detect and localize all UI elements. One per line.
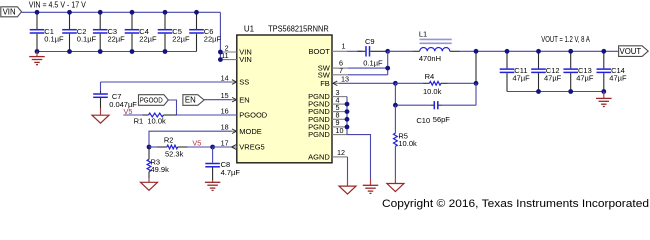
svg-text:VIN: VIN — [239, 55, 252, 64]
svg-text:0.1µF: 0.1µF — [44, 34, 64, 43]
capacitor C13 — [563, 51, 578, 91]
capacitor C2 — [62, 12, 77, 51]
svg-text:15: 15 — [221, 91, 229, 100]
junction PGND — [345, 117, 350, 122]
ground under C7 — [100, 108, 102, 115]
svg-text:0.1µF: 0.1µF — [77, 34, 97, 43]
svg-text:PGOOD: PGOOD — [140, 96, 163, 105]
wire input GND rail — [37, 51, 197, 53]
svg-text:11: 11 — [221, 51, 228, 60]
capacitor C14 — [597, 51, 612, 91]
svg-text:22µF: 22µF — [172, 34, 190, 43]
junction C5 top — [163, 10, 168, 15]
svg-text:R1: R1 — [134, 116, 144, 125]
wire PGND chain — [346, 97, 348, 135]
ground bars C8 — [205, 182, 221, 190]
wire SW pin 6 — [348, 67, 388, 69]
wire VIN top rail — [22, 11, 221, 13]
svg-text:MODE: MODE — [239, 127, 261, 136]
wire R4 to right vertical — [448, 82, 477, 84]
resistor R4 — [429, 81, 441, 85]
junction C3 bottom — [98, 49, 103, 54]
inductor L1 — [412, 39, 460, 51]
wire AGND to ground — [347, 157, 349, 179]
junction C4 bottom — [130, 49, 135, 54]
pin BOOT 1 — [332, 50, 347, 52]
capacitor C1 — [30, 12, 45, 51]
wire output rail — [460, 50, 618, 52]
op-amp U1 TPS568215RNNR body — [237, 35, 332, 163]
wire BOOT to C9 — [347, 50, 362, 52]
svg-text:47µF: 47µF — [609, 73, 627, 82]
svg-text:V5: V5 — [192, 138, 201, 147]
pin PGND 10 — [332, 134, 347, 136]
junction R4 right — [474, 81, 479, 86]
ground input rail — [36, 52, 38, 57]
pin MODE 18 — [232, 130, 237, 132]
pin PGOOD 16 — [219, 114, 237, 116]
svg-text:12: 12 — [337, 148, 345, 157]
resistor R3 — [147, 159, 151, 171]
pin SW 6 — [332, 67, 348, 69]
ground under C8 — [212, 180, 214, 182]
pin FB 13 — [332, 82, 339, 84]
wire to pin 16 — [177, 114, 220, 116]
svg-text:L1: L1 — [419, 29, 427, 38]
wire down to C10 — [475, 83, 477, 105]
capacitor C6 — [189, 12, 204, 51]
svg-text:47µF: 47µF — [513, 73, 531, 82]
terminal VOUT — [619, 46, 649, 57]
capacitor C12 — [531, 51, 546, 91]
junction C2 bottom — [67, 49, 72, 54]
junction C3 top — [98, 10, 103, 15]
svg-text:10: 10 — [336, 126, 344, 135]
svg-text:22µF: 22µF — [204, 34, 222, 43]
wire FB net — [339, 82, 395, 84]
resistor R5 leads — [394, 105, 396, 133]
junction C13 top — [568, 49, 573, 54]
junction PGND — [345, 125, 350, 130]
terminal EN — [183, 95, 204, 106]
wire C10 run — [442, 104, 477, 106]
wire V5 to R1 — [123, 114, 142, 116]
junction C1 top — [35, 10, 40, 15]
svg-text:1: 1 — [342, 42, 346, 51]
svg-text:4.7µF: 4.7µF — [221, 168, 241, 177]
pin PGND 9 — [332, 126, 347, 128]
svg-text:R4: R4 — [425, 72, 435, 81]
junction PGND — [345, 109, 350, 114]
junction C2 top — [67, 10, 72, 15]
svg-text:FB: FB — [320, 79, 330, 88]
svg-text:R2: R2 — [164, 136, 174, 145]
pin PGND 8 — [332, 118, 347, 120]
wire output gnd rail — [507, 91, 604, 93]
wire SW vertical — [387, 51, 389, 75]
junction PGND — [345, 102, 350, 107]
svg-text:Copyright © 2016, Texas Instru: Copyright © 2016, Texas Instruments Inco… — [382, 198, 649, 210]
pin SW 7 — [332, 74, 348, 76]
pin PGND 4 — [332, 103, 347, 105]
wire MODE net — [149, 131, 232, 147]
svg-text:18: 18 — [221, 123, 229, 132]
svg-text:22µF: 22µF — [108, 34, 126, 43]
wire R1 to junction — [164, 114, 177, 116]
ground under C14 — [603, 92, 605, 99]
wire V5 net — [188, 146, 213, 148]
capacitor C8 wire — [212, 147, 214, 163]
resistor R2 — [167, 145, 178, 149]
wire R2 right lead — [178, 146, 188, 148]
svg-text:16: 16 — [221, 106, 229, 115]
junction C9/SW/L1 — [385, 49, 390, 54]
svg-text:14: 14 — [221, 73, 229, 82]
junction C12 top — [536, 49, 541, 54]
wire to pin 17 — [213, 146, 232, 148]
resistor R3 leads — [148, 147, 150, 159]
ground triangle AGND — [339, 186, 356, 194]
capacitor C10 — [430, 101, 441, 109]
junction MODE/R2/R3 — [147, 145, 152, 150]
svg-text:17: 17 — [221, 138, 229, 147]
svg-text:56pF: 56pF — [433, 115, 451, 124]
pin VIN 2 — [220, 51, 236, 53]
wire PGOOD tag to net — [168, 100, 176, 115]
capacitor C11 — [500, 51, 515, 91]
wire SW pin 7 — [348, 74, 388, 76]
svg-text:22µF: 22µF — [139, 34, 157, 43]
junction C5 bottom — [163, 49, 168, 54]
wire EN tag to pin 15 — [204, 99, 231, 101]
ground bars output — [596, 98, 612, 106]
svg-text:VOUT: VOUT — [620, 47, 642, 56]
junction rail/R4 vertical — [474, 49, 479, 54]
svg-text:470nH: 470nH — [419, 54, 441, 63]
svg-text:47µF: 47µF — [544, 73, 562, 82]
wire output rail to R4/C10 vertical — [475, 51, 477, 83]
pin AGND 12 — [332, 156, 348, 158]
pin VREG5 17 — [232, 146, 237, 148]
ground triangle C7 — [92, 115, 109, 123]
ground triangle R5 — [387, 184, 404, 192]
svg-text:TPS568215RNNR: TPS568215RNNR — [268, 25, 329, 34]
capacitor C4 — [125, 12, 140, 51]
pin VIN 11 — [220, 59, 236, 61]
svg-text:10.0k: 10.0k — [423, 87, 442, 96]
junction C10 left/R5 — [393, 103, 398, 108]
junction SW6 — [385, 66, 390, 71]
svg-text:U1: U1 — [244, 25, 255, 34]
capacitor C9 — [358, 46, 388, 56]
svg-text:52.3k: 52.3k — [165, 149, 184, 158]
capacitor C7 — [93, 91, 108, 108]
capacitor C5 — [158, 12, 173, 51]
svg-text:0.1µF: 0.1µF — [363, 59, 383, 68]
pin EN 15 — [232, 99, 237, 101]
resistor R5 — [394, 133, 398, 146]
svg-text:VREG5: VREG5 — [239, 143, 264, 152]
ground triangle R3 — [141, 182, 158, 190]
junction C14 top — [601, 49, 606, 54]
svg-text:C10: C10 — [416, 116, 430, 125]
pin SS 14 — [232, 81, 237, 83]
junction C4 top — [130, 10, 135, 15]
terminal VIN — [1, 7, 22, 17]
svg-text:C9: C9 — [365, 37, 375, 46]
svg-text:13: 13 — [341, 74, 349, 83]
junction FB — [393, 81, 398, 86]
capacitor C3 — [93, 12, 108, 51]
wire PGND to ground — [347, 135, 371, 179]
junction C8/VREG5 — [210, 145, 215, 150]
wire R2 left lead — [149, 146, 157, 148]
svg-text:VIN = 4.5 V - 17 V: VIN = 4.5 V - 17 V — [29, 0, 87, 9]
svg-text:49.9k: 49.9k — [151, 165, 170, 174]
ground under R5 — [394, 178, 396, 183]
ground bars under C1 — [29, 57, 45, 65]
svg-text:VIN: VIN — [3, 8, 16, 17]
wire SS net — [101, 81, 232, 83]
wire FB vertical — [394, 83, 396, 105]
svg-text:47µF: 47µF — [576, 73, 594, 82]
svg-text:SS: SS — [239, 78, 249, 87]
wire FB to R4 — [395, 82, 423, 84]
junction C6 top — [194, 10, 199, 15]
ground bars PGND — [363, 185, 379, 193]
svg-text:PGND: PGND — [308, 130, 330, 139]
svg-text:EN: EN — [239, 95, 249, 104]
svg-text:VOUT = 1.2 V, 8 A: VOUT = 1.2 V, 8 A — [541, 35, 590, 44]
svg-text:AGND: AGND — [308, 153, 330, 162]
wire VIN vertical to pins — [219, 12, 221, 59]
svg-text:10.0k: 10.0k — [398, 139, 417, 148]
ground under R3 — [148, 178, 150, 182]
capacitor C8 — [205, 163, 220, 181]
wire SW node to L1 — [388, 50, 413, 52]
svg-text:PGOOD: PGOOD — [239, 111, 268, 120]
resistor R1 — [149, 113, 164, 117]
svg-text:BOOT: BOOT — [309, 47, 331, 56]
terminal PGOOD — [139, 95, 169, 106]
svg-text:10.0k: 10.0k — [147, 116, 166, 125]
junction C1 bottom — [35, 49, 40, 54]
pin PGND 3 — [332, 96, 347, 98]
svg-text:EN: EN — [185, 96, 196, 105]
wire C10 to left vertical — [395, 104, 430, 106]
pin PGND 5 — [332, 111, 347, 113]
junction C11 top — [505, 49, 510, 54]
